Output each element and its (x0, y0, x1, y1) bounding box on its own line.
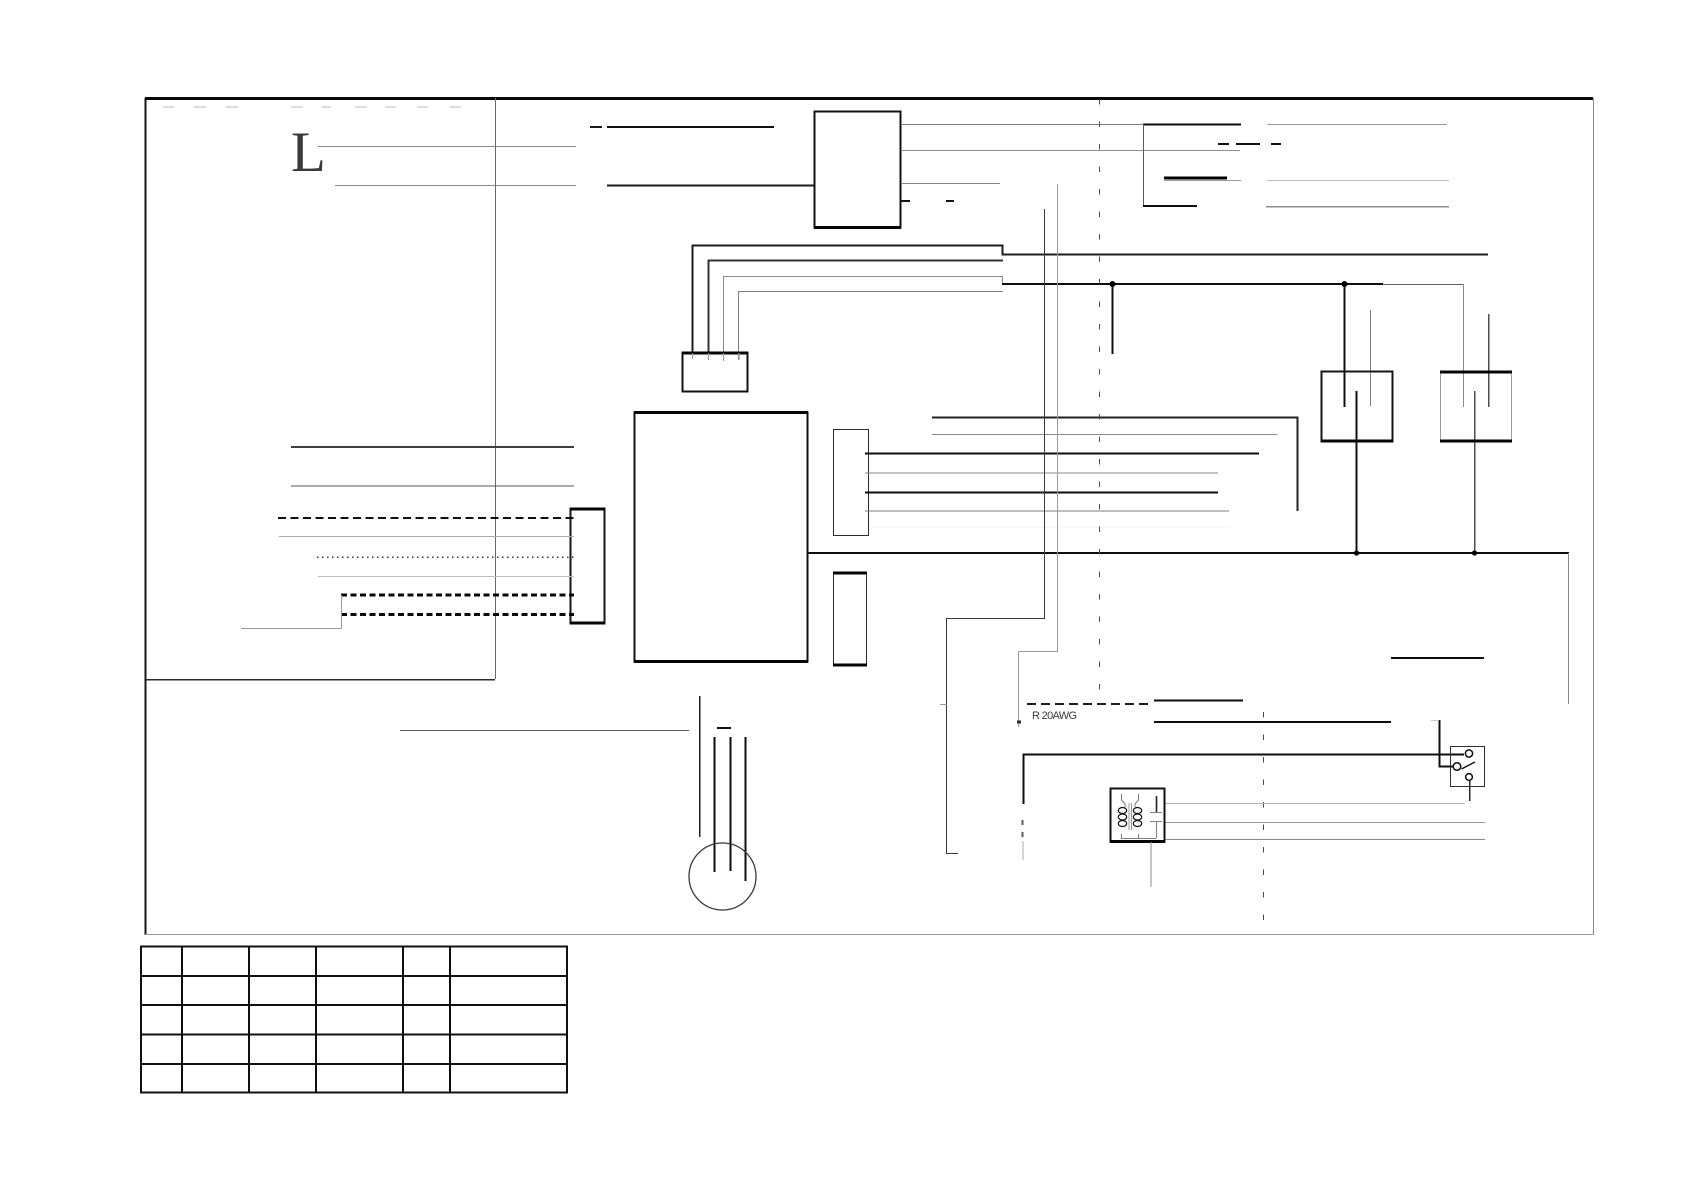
T1 coil leads (1121, 794, 1156, 839)
T1 filter capacitor (1150, 796, 1162, 838)
wire L corner to switch (1024, 755, 1465, 805)
SW1 contact common (1453, 763, 1461, 771)
fold line upper (1099, 99, 1101, 705)
staircase vertical wire (1143, 124, 1145, 206)
vertical trunk wire 1 (947, 209, 1045, 854)
wire U1 pin right 3 (901, 183, 1000, 185)
transformer T1 (1110, 789, 1165, 888)
tick at SW1 wire top (1431, 720, 1439, 722)
wire J1 F (318, 576, 574, 578)
wire J1 D (279, 536, 574, 538)
J2 pin stubs inside (692, 353, 694, 359)
main bus wire tail (1383, 284, 1464, 286)
bus corner drop right (1568, 553, 1570, 704)
T1 secondary coil (1133, 808, 1141, 827)
junction A dot (1110, 281, 1116, 287)
wire J1 A (291, 446, 574, 448)
T1 bottom lead (1150, 842, 1152, 887)
SW1 contact top (1465, 750, 1472, 757)
junction D dot (1472, 550, 1477, 555)
connector J4 (833, 573, 867, 666)
motor M1 (689, 843, 756, 910)
T1 core (1129, 803, 1132, 830)
main bus y553 (808, 552, 1569, 554)
junction C dot (1354, 550, 1359, 555)
wire U1 pin right 1 (901, 124, 1241, 126)
svg-text:R 20AWG: R 20AWG (1032, 710, 1077, 722)
wire J3 pin3 (865, 492, 1218, 494)
sheet border left (145, 98, 147, 935)
SW1 contact bottom (1466, 774, 1473, 781)
motor lead 3 (730, 737, 732, 871)
wire J3 pin2 (865, 472, 1218, 474)
wire stub top middle (590, 126, 602, 128)
T1 primary coil (1118, 808, 1126, 827)
wire solid after dashes (1154, 700, 1243, 702)
SW1 lever (1462, 762, 1476, 769)
wire into U1 pin left (607, 185, 814, 187)
wire drop to box C2 (1463, 284, 1465, 407)
wire J1 H dashed (341, 613, 574, 616)
wire J3 pin4 (865, 510, 1229, 512)
wire J1 G dashed (341, 594, 574, 597)
motor lead 4 (745, 737, 747, 881)
connector J1 (570, 509, 605, 624)
wire to switch corner (1154, 721, 1391, 723)
wire upper right bus a (932, 418, 1298, 512)
vertical partition line (495, 98, 497, 679)
title block table (141, 946, 567, 1093)
capacitor box C1 (1321, 372, 1393, 442)
switch SW1 (1451, 747, 1485, 787)
connector J2 (682, 353, 748, 392)
wire pair2 inner (J2 pin4) (739, 292, 1004, 353)
pin stub U1 lower right b (946, 200, 954, 202)
wire below L node (335, 185, 576, 187)
net stub dash row c (1271, 143, 1281, 145)
connector J3 (834, 430, 869, 536)
wire step to J1 G (241, 595, 342, 629)
wire staircase bottom (1143, 205, 1197, 207)
main bus wire dark (1002, 283, 1383, 285)
net stub dash row b (1236, 143, 1260, 145)
horizontal partition line (146, 679, 495, 681)
wire drop C1 to bus (1356, 391, 1358, 553)
motor lead 1 (699, 696, 701, 837)
faint artifact row (872, 526, 1230, 528)
wire J1 C dashed (278, 517, 574, 519)
wire T1 sec3 (1165, 839, 1485, 841)
wire T1 sec1 to SW1 (1165, 803, 1465, 805)
stub into C2 (1488, 314, 1490, 407)
trunk2 lower marks (1022, 820, 1024, 825)
MCU block U2 (634, 413, 808, 662)
wire into SW1 common (1440, 720, 1454, 767)
IC U1 (814, 112, 901, 228)
wire J1 E dotted (317, 556, 574, 558)
SW1 bottom lead (1469, 781, 1471, 802)
wire to motor area (400, 730, 689, 732)
wire right mid gray 1 (1267, 180, 1449, 182)
wire pair1 inner (J2 pin2) (709, 261, 1004, 353)
sheet border bottom (145, 934, 1593, 936)
motor lead stub (717, 727, 731, 729)
vertical trunk wire 2 (1019, 184, 1058, 727)
wire net continuation right 1 (1267, 124, 1447, 126)
wire to U1 top area (607, 126, 774, 128)
wire drop to box C1 (1344, 284, 1346, 407)
stub into C1 (1370, 310, 1372, 406)
net stub dash row a (1218, 143, 1229, 145)
wire from L node (318, 146, 576, 148)
dark bus segment overlay top (1143, 123, 1241, 125)
wire upper right bus b (932, 434, 1277, 436)
wire drop C2 to bus (1474, 391, 1476, 553)
wire U1 pin right 2 (901, 150, 1240, 152)
thick net label bar (1164, 177, 1227, 180)
wire T1 sec2 (1165, 822, 1485, 824)
capacitor box C2 (1440, 372, 1512, 442)
wire J1 B (291, 485, 574, 487)
wire under net label (1164, 180, 1241, 182)
tick on trunk wire 1 (940, 704, 947, 706)
fold line lower (1263, 712, 1265, 934)
R 20AWG dashed wire (1027, 703, 1152, 705)
wire top right short (1391, 657, 1484, 659)
junction B dot (1342, 281, 1348, 287)
wire right mid gray 2 (1266, 206, 1449, 208)
wire pair1 outer (J2 pin1 loop) (693, 246, 1489, 353)
wire J3 pin1 (865, 453, 1259, 455)
junction dot trunk2 (1017, 721, 1021, 724)
sheet border right (1593, 98, 1595, 935)
wire pair2 outer (J2 pin3 loop) (724, 277, 1003, 353)
pin stub U1 lower right a (900, 200, 910, 202)
motor lead 2 (714, 737, 716, 872)
faded header tick marks (163, 106, 461, 108)
sheet border top (145, 97, 1593, 100)
svg-text:L: L (291, 121, 326, 184)
wire drop from junction A (1112, 284, 1114, 354)
